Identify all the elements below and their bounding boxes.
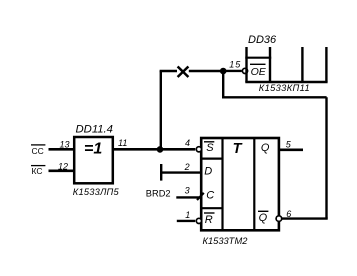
pin number 13 <box>60 140 70 150</box>
pin number 4 <box>185 138 190 148</box>
svg-text:2: 2 <box>184 162 190 172</box>
svg-text:S: S <box>206 142 214 154</box>
svg-text:12: 12 <box>58 161 68 171</box>
junction dot B <box>220 68 227 75</box>
pin number 5 <box>286 140 292 150</box>
svg-text:T: T <box>233 141 243 157</box>
svg-text:D: D <box>204 166 212 178</box>
pin number 6 <box>286 209 291 219</box>
X mark (broken connection) <box>178 67 189 78</box>
input C label <box>206 190 214 202</box>
wire: X mark to node B <box>189 70 223 72</box>
pin 15 wire into OE <box>223 70 242 72</box>
OE enable label (overlined) <box>250 64 267 78</box>
gate DD11.4 body (=1 XOR) <box>74 137 113 183</box>
S input bubble <box>196 147 201 152</box>
Q-bar output bubble <box>276 216 282 222</box>
svg-text:R: R <box>205 214 213 226</box>
svg-text:=1: =1 <box>84 140 102 157</box>
pin 3 wire (C clock) <box>176 196 201 198</box>
svg-text:CC: CC <box>32 146 44 156</box>
wire: across under DD36 <box>222 96 327 98</box>
label К1533ТМ2 <box>203 236 249 246</box>
net BRD2 <box>146 188 171 198</box>
label К1533ЛП5 <box>73 187 120 197</box>
label К1533КП11 <box>259 83 310 93</box>
wire: horizontal to X mark <box>160 70 177 72</box>
pin number 11 <box>118 138 127 148</box>
pin 11 output wire <box>113 148 162 151</box>
mux DD36 body (bottom bar and pin columns) <box>245 47 327 82</box>
pin 1 wire (R) <box>177 220 195 222</box>
svg-text:Q: Q <box>261 142 270 154</box>
label DD36 <box>248 34 277 46</box>
input D label <box>204 166 212 178</box>
pin 6 wire (Q-bar to feedback) <box>282 217 328 219</box>
net КС (overlined) <box>31 166 45 176</box>
svg-text:6: 6 <box>286 209 291 219</box>
wire: node B down <box>222 71 224 97</box>
label DD11.4 <box>76 124 113 136</box>
output Q label <box>261 142 270 154</box>
pin number 12 <box>58 161 68 171</box>
svg-text:Q: Q <box>259 212 268 224</box>
svg-text:1: 1 <box>185 210 190 220</box>
pin number 1 <box>185 210 190 220</box>
svg-text:КС: КС <box>32 166 43 176</box>
wire: vertical branch up from node A <box>160 71 162 149</box>
label T (trigger) <box>233 141 243 157</box>
pin 12 wire <box>49 170 75 173</box>
pin 2 wire (D) with open-end tick <box>160 164 201 181</box>
svg-text:DD36: DD36 <box>248 34 277 46</box>
svg-text:BRD2: BRD2 <box>146 188 171 198</box>
svg-text:К1533ЛП5: К1533ЛП5 <box>73 187 120 197</box>
svg-text:5: 5 <box>286 140 292 150</box>
pin 15 inversion bubble <box>242 68 247 73</box>
wire: feedback down right side <box>325 97 327 218</box>
R input bubble <box>196 218 201 223</box>
pin number 2 <box>184 162 190 172</box>
junction dot A (gate output branch) <box>157 146 164 153</box>
pin 4 wire (to S) <box>159 148 195 151</box>
pin number 15 <box>229 59 241 69</box>
svg-text:11: 11 <box>118 138 127 148</box>
net CC (overlined) <box>31 145 45 156</box>
svg-text:4: 4 <box>185 138 190 148</box>
svg-text:К1533КП11: К1533КП11 <box>259 83 310 93</box>
pin 13 wire <box>49 148 75 151</box>
svg-text:13: 13 <box>60 140 70 150</box>
pin 5 wire (Q) <box>280 149 303 152</box>
svg-text:15: 15 <box>229 59 241 69</box>
flip-flop К1533ТМ2 body <box>201 138 279 230</box>
svg-text:OE: OE <box>251 66 267 78</box>
pin number 3 <box>185 186 190 196</box>
dynamic input mark on C <box>197 193 204 200</box>
input S label (overlined) <box>204 142 214 154</box>
output Q-bar label (overlined) <box>258 211 268 224</box>
svg-text:К1533ТМ2: К1533ТМ2 <box>203 236 249 246</box>
svg-text:C: C <box>206 190 214 202</box>
svg-text:3: 3 <box>185 186 190 196</box>
svg-text:DD11.4: DD11.4 <box>76 124 113 136</box>
input R label (overlined) <box>204 213 215 226</box>
